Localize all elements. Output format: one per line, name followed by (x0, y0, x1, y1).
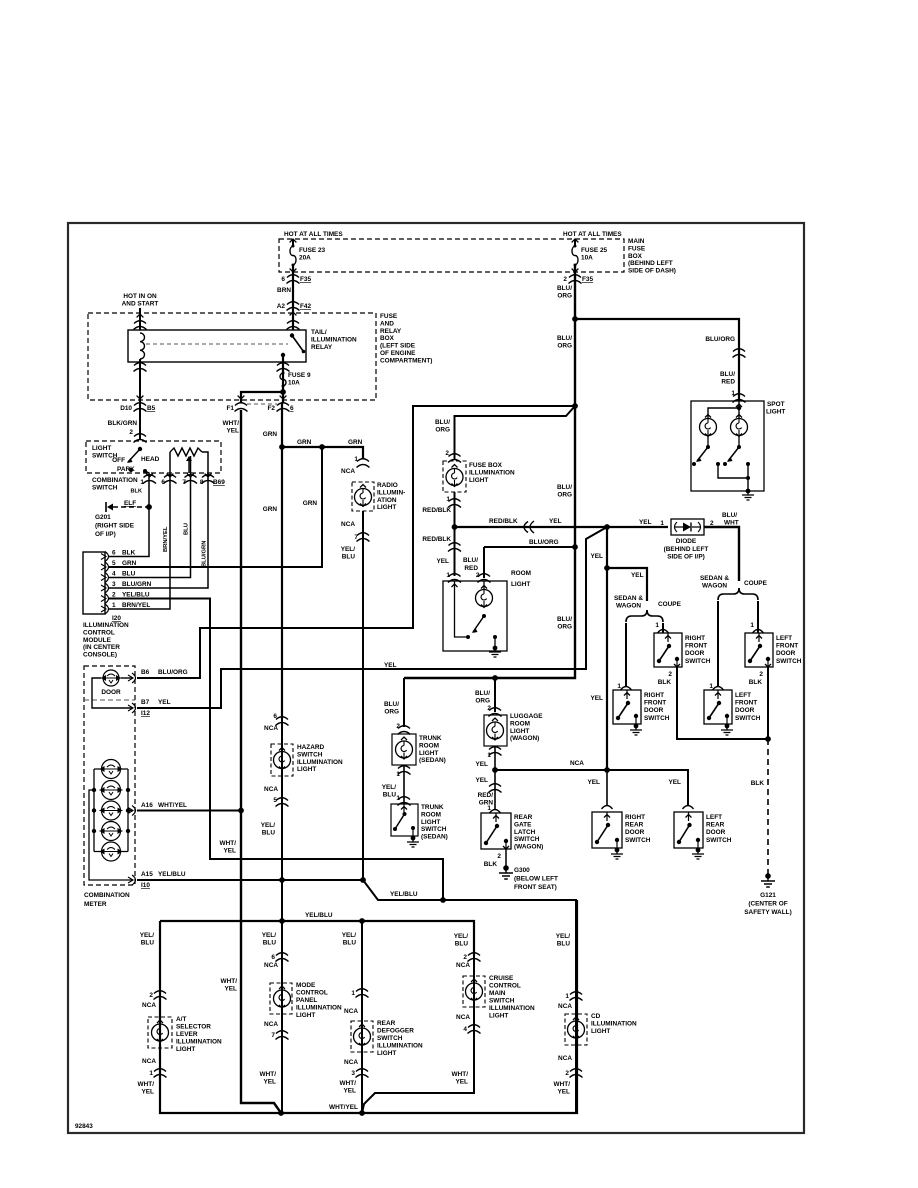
svg-text:LATCH: LATCH (514, 829, 536, 836)
svg-text:DOOR: DOOR (735, 707, 755, 714)
svg-text:BLU/ORG: BLU/ORG (158, 669, 188, 676)
module pin 1 BRN/YEL (105, 604, 109, 614)
svg-text:RIGHT: RIGHT (644, 692, 664, 699)
svg-text:ILLUMIN-: ILLUMIN- (377, 489, 405, 496)
svg-text:10A: 10A (288, 380, 300, 387)
svg-text:F35: F35 (582, 276, 594, 283)
svg-text:2: 2 (463, 954, 467, 961)
label fuse and relay box (380, 313, 432, 364)
module pin 3 BLU/GRN (105, 583, 109, 593)
luggage room light (wagon) box (484, 715, 507, 746)
svg-text:1: 1 (354, 456, 358, 463)
label main fuse box (628, 238, 676, 275)
label rear gate latch switch (514, 814, 543, 851)
connector pin B6 (128, 673, 136, 683)
svg-text:2: 2 (149, 992, 153, 999)
label left rear door switch (706, 814, 732, 844)
svg-text:YEL/BLU: YEL/BLU (305, 912, 333, 919)
wire fuse25 top arrow (574, 240, 576, 245)
svg-text:YEL: YEL (631, 572, 644, 579)
wire module pin5 GRN to GRN junction (108, 447, 322, 567)
wire BLK rear gate latch to G300 (505, 849, 507, 866)
svg-text:(IN CENTER: (IN CENTER (83, 644, 120, 651)
wire relay output to fuse 9 (282, 355, 284, 403)
connector pin A16 (128, 806, 136, 816)
label light switch (92, 445, 118, 460)
svg-text:LIGHT: LIGHT (296, 1012, 315, 1019)
label fuse box illumination light (469, 462, 515, 484)
svg-text:RED: RED (464, 565, 478, 572)
svg-text:LEFT: LEFT (776, 635, 792, 642)
svg-text:CONSOLE): CONSOLE) (83, 652, 117, 659)
svg-text:(SEDAN): (SEDAN) (421, 834, 448, 841)
wire BLU/ORG room light to main (484, 546, 576, 548)
svg-text:YEL: YEL (639, 519, 652, 526)
connector CD illumination light bottom (570, 1069, 583, 1078)
svg-text:YEL: YEL (158, 699, 171, 706)
svg-text:SWITCH: SWITCH (644, 715, 670, 722)
fuse F9 10A (282, 372, 285, 375)
mode control panel illumination light (dashed box + bulb) (270, 983, 292, 1014)
wire to left front door switch (coupe) (757, 601, 759, 633)
label WHT/YEL mode control panel illumination light (260, 1071, 277, 1086)
svg-text:6: 6 (281, 276, 285, 283)
svg-text:YEL/: YEL/ (382, 784, 397, 791)
combination meter bulb 5 (102, 842, 121, 861)
label YEL/BLU rear defogger switch illumination light (342, 932, 357, 947)
svg-text:ELF: ELF (124, 500, 136, 507)
svg-text:RED/BLK: RED/BLK (422, 507, 451, 514)
label CD illumination light (591, 1013, 637, 1035)
svg-text:1: 1 (396, 771, 400, 778)
room light switch (455, 581, 467, 637)
svg-text:HOT AT ALL TIMES: HOT AT ALL TIMES (284, 231, 343, 238)
junction BLK ground net (765, 736, 771, 742)
svg-text:(WAGON): (WAGON) (510, 735, 539, 742)
connector RED/BLK-YEL (524, 521, 534, 533)
svg-text:MODE: MODE (296, 982, 316, 989)
label BLU/ORG fusebox light (435, 419, 450, 434)
connector F1 (235, 403, 248, 412)
svg-text:I12: I12 (141, 710, 150, 717)
module pin 5 GRN (105, 562, 109, 572)
svg-text:3: 3 (351, 1070, 355, 1077)
label sedan & wagon right (700, 575, 729, 590)
brace split right (718, 588, 739, 600)
svg-text:NCA: NCA (344, 1008, 358, 1015)
svg-text:BOX: BOX (380, 335, 395, 342)
svg-text:G121: G121 (760, 892, 776, 899)
label YEL/BLU A/T selector lever illumination light (140, 932, 155, 947)
combination meter bulb 3 (102, 801, 121, 820)
label WHT/YEL cruise control main switch illumination light (452, 1071, 469, 1086)
combination meter bulb 2 (102, 781, 121, 800)
svg-text:BRN: BRN (277, 287, 291, 294)
svg-text:HAZARD: HAZARD (297, 744, 325, 751)
svg-text:BLU: BLU (455, 941, 469, 948)
svg-text:SWITCH: SWITCH (92, 485, 118, 492)
svg-text:10A: 10A (581, 255, 593, 262)
module pin 6 BLK (105, 552, 109, 562)
svg-text:AND START: AND START (122, 301, 159, 308)
junction ELF on BLK wire (146, 504, 152, 510)
light switch (dashed box) (86, 441, 221, 473)
label left front door switch sedan (735, 692, 761, 722)
junction YEL/BLU hazard (279, 877, 285, 883)
combination meter bulb 4 (102, 822, 121, 841)
label YEL/BLU radio (341, 546, 356, 561)
left rear door switch (674, 812, 703, 848)
svg-text:BLU/ORG: BLU/ORG (705, 336, 735, 343)
label G121 (744, 892, 791, 916)
svg-text:WAGON: WAGON (702, 583, 727, 590)
connector left rear door switch pin1 (683, 806, 694, 810)
svg-text:YEL/BLU: YEL/BLU (158, 871, 186, 878)
svg-text:YEL/: YEL/ (341, 546, 356, 553)
svg-text:CONTROL: CONTROL (489, 983, 521, 990)
svg-text:SWITCH: SWITCH (297, 751, 323, 758)
svg-text:ILLUMINATION: ILLUMINATION (469, 469, 515, 476)
svg-text:6: 6 (112, 550, 116, 557)
wire WHT/YEL from F1 to bottom bus (241, 410, 281, 1113)
wire YEL to diode (607, 526, 668, 528)
junction NCA rear net left (492, 767, 498, 773)
svg-text:DOOR: DOOR (625, 829, 645, 836)
connector rear defogger switch illumination light top (356, 989, 369, 998)
mode control panel illumination light column wire (281, 921, 283, 1113)
svg-text:4: 4 (112, 571, 116, 578)
svg-text:YEL: YEL (590, 695, 603, 702)
svg-text:RIGHT: RIGHT (685, 635, 705, 642)
svg-text:(SEDAN): (SEDAN) (419, 757, 446, 764)
combination switch pin 7 (187, 474, 194, 477)
svg-text:COMBINATION: COMBINATION (84, 892, 130, 899)
svg-text:HEAD: HEAD (141, 456, 160, 463)
svg-text:FUSE 25: FUSE 25 (581, 247, 608, 254)
label radio illumination light (377, 482, 405, 511)
label BLU/ORG main 2 (557, 335, 572, 350)
svg-text:COMBINATION: COMBINATION (92, 477, 138, 484)
svg-text:PANEL: PANEL (296, 997, 317, 1004)
connector at relay box top right (287, 321, 300, 330)
svg-text:A16: A16 (141, 802, 153, 809)
label combination meter (84, 892, 130, 908)
wire relay coil to D10 (139, 359, 141, 440)
trunk room light switch (sedan) (391, 804, 418, 836)
junction BLU/ORG to spot light (572, 316, 578, 322)
svg-text:REAR: REAR (625, 822, 644, 829)
svg-text:B6: B6 (141, 669, 150, 676)
connector room light pin 1 (448, 574, 461, 583)
connector luggage room light pin 1 (489, 747, 502, 756)
room light bulb (476, 590, 493, 607)
rear defogger switch illumination light column wire (361, 921, 363, 1113)
relay switch (290, 333, 294, 337)
wire luggage light output YEL (494, 746, 496, 770)
svg-text:TRUNK: TRUNK (421, 804, 444, 811)
svg-text:YEL/: YEL/ (556, 933, 571, 940)
wire to right front door switch (sedan) (625, 623, 627, 686)
svg-text:ORG: ORG (557, 293, 572, 300)
svg-text:NCA: NCA (570, 760, 584, 767)
label rear defogger switch illumination light (377, 1020, 423, 1057)
connector room light harness (448, 543, 461, 552)
label G201 (95, 514, 135, 538)
label hazard switch illumination light (297, 744, 343, 773)
label G300 (514, 867, 558, 891)
svg-text:YEL/: YEL/ (261, 822, 276, 829)
spot light ground wiring (718, 464, 748, 491)
label BLU/RED (720, 371, 735, 386)
svg-text:BLU: BLU (383, 792, 397, 799)
connector F35 pin 2 (569, 275, 582, 284)
svg-text:CONTROL: CONTROL (296, 990, 328, 997)
wire hot in on feed to relay coil (139, 308, 141, 330)
svg-text:NCA: NCA (264, 725, 278, 732)
wire GRN from F2 down to hazard switch (281, 403, 283, 719)
label YEL/BLU mode control panel illumination light (262, 932, 277, 947)
svg-text:YEL: YEL (226, 428, 239, 435)
door section divider (84, 699, 135, 701)
wire meter to pin A16 (128, 810, 133, 812)
spot light bulb left (700, 419, 717, 436)
connector trunk room light pin 1 (398, 766, 411, 775)
wire BRN from fuse 23 to relay (292, 266, 294, 330)
wire to left front door switch (sedan) (717, 601, 719, 686)
label WHT/YEL CD illumination light (554, 1081, 571, 1096)
svg-text:YEL: YEL (455, 1079, 468, 1086)
junction YEL/BLU module net (440, 897, 446, 903)
luggage room light bulb (487, 722, 504, 739)
wire NCA rear net (495, 770, 688, 806)
svg-text:BRN/YEL: BRN/YEL (122, 602, 150, 609)
svg-text:(LEFT SIDE: (LEFT SIDE (380, 343, 416, 350)
connector CD illumination light top (570, 992, 583, 1001)
svg-text:ORG: ORG (475, 698, 490, 705)
combination meter (dashed box) (84, 666, 135, 885)
svg-text:COMPARTMENT): COMPARTMENT) (380, 357, 432, 364)
connector spot light pin 1 (733, 394, 746, 403)
svg-text:A/T: A/T (176, 1016, 186, 1023)
connector radio light pin 1 (357, 459, 369, 462)
cruise control main switch illumination light column wire (473, 921, 475, 1093)
svg-text:YEL: YEL (343, 1088, 356, 1095)
svg-text:BLU: BLU (342, 554, 356, 561)
svg-text:(BEHIND LEFT: (BEHIND LEFT (628, 260, 673, 267)
svg-text:NCA: NCA (264, 962, 278, 969)
svg-text:A2: A2 (277, 303, 286, 310)
svg-text:ORG: ORG (557, 343, 572, 350)
svg-text:BLU/: BLU/ (384, 701, 399, 708)
junction BLU/ORG luggage light (492, 675, 498, 681)
svg-text:1: 1 (351, 990, 355, 997)
wire branch to F1 (241, 392, 283, 403)
svg-text:2: 2 (565, 1070, 569, 1077)
svg-text:RED/: RED/ (478, 792, 494, 799)
CD illumination light (dashed box + bulb) (565, 1014, 587, 1045)
connector right front door switch coupe pin1 (658, 630, 669, 634)
junction YEL at diode (604, 524, 610, 530)
svg-text:WHT/: WHT/ (223, 420, 240, 427)
svg-text:FRONT: FRONT (644, 700, 666, 707)
svg-text:NCA: NCA (456, 1014, 470, 1021)
radio illumination light (dashed box + bulb) (352, 482, 374, 511)
svg-text:OFF: OFF (112, 457, 125, 464)
relay internal dashed link (146, 343, 288, 345)
svg-text:LIGHT: LIGHT (421, 819, 440, 826)
svg-text:ILLUMINATION: ILLUMINATION (591, 1021, 637, 1028)
svg-text:LIGHT: LIGHT (377, 1050, 396, 1057)
connector trunk light switch pin 1 (398, 797, 411, 806)
svg-text:ILLUMINATION: ILLUMINATION (176, 1039, 222, 1046)
svg-text:MAIN: MAIN (628, 238, 645, 245)
svg-text:GRN: GRN (122, 560, 137, 567)
svg-text:1: 1 (112, 602, 116, 609)
wire YEL to rear gate latch switch (494, 770, 496, 810)
wire module pin2 YEL/BLU to bottom net (108, 599, 443, 901)
svg-text:20A: 20A (299, 255, 311, 262)
connector mode control panel illumination light top (276, 953, 289, 962)
wire BLU/RED room light pin2 (483, 547, 485, 578)
svg-text:WAGON: WAGON (616, 603, 641, 610)
dashed connector strip between F1 and F2 (247, 403, 277, 405)
svg-text:FRONT: FRONT (776, 643, 798, 650)
wire YEL from diode junction to module B7 (137, 527, 607, 708)
svg-text:(WAGON): (WAGON) (514, 844, 543, 851)
svg-text:YEL: YEL (587, 779, 600, 786)
wire BLU/ORG to fuse box illumination light (455, 406, 576, 459)
main fuse box (dashed) (279, 239, 624, 272)
svg-text:I20: I20 (112, 615, 121, 622)
label WHT/YEL A/T selector lever illumination light (138, 1081, 155, 1096)
svg-text:ORG: ORG (557, 492, 572, 499)
svg-text:7: 7 (271, 1032, 275, 1039)
svg-text:A15: A15 (141, 871, 153, 878)
svg-text:LIGHT: LIGHT (489, 1013, 508, 1020)
svg-text:1: 1 (140, 479, 144, 486)
svg-text:YEL: YEL (590, 553, 603, 560)
svg-text:ORG: ORG (557, 624, 572, 631)
svg-text:DEFOGGER: DEFOGGER (377, 1028, 414, 1035)
label BLU/RED room light (463, 557, 478, 572)
svg-text:F42: F42 (300, 303, 312, 310)
label mode control panel illumination light (296, 982, 342, 1019)
connector left front door switch coupe pin1 (753, 630, 764, 634)
svg-text:YEL/: YEL/ (454, 933, 469, 940)
hazard column wire (281, 719, 283, 921)
ground room light (494, 637, 496, 648)
svg-text:YEL: YEL (557, 1089, 570, 1096)
connector luggage room light pin 2 (489, 708, 502, 717)
svg-text:RIGHT: RIGHT (625, 814, 645, 821)
svg-text:YEL: YEL (668, 779, 681, 786)
connector room light pin 2 (478, 574, 491, 583)
svg-text:FUSE: FUSE (380, 313, 398, 320)
svg-text:SEDAN &: SEDAN & (614, 595, 643, 602)
spot light bulb right (731, 419, 748, 436)
svg-text:NCA: NCA (264, 786, 278, 793)
wire GRN horizontal to radio light (282, 447, 363, 459)
svg-text:YEL: YEL (263, 1079, 276, 1086)
connector right front door switch sedan pin1 (621, 687, 632, 691)
svg-text:WHT/: WHT/ (260, 1071, 277, 1078)
svg-text:YEL/: YEL/ (140, 932, 155, 939)
svg-text:YEL/BLU: YEL/BLU (390, 891, 418, 898)
label BLU/ORG main 4 (557, 616, 572, 631)
svg-text:GRN: GRN (297, 439, 312, 446)
svg-text:BLU/: BLU/ (475, 690, 490, 697)
svg-text:OF ENGINE: OF ENGINE (380, 350, 416, 357)
svg-text:REAR: REAR (514, 814, 533, 821)
junction bus mode bottom (278, 1110, 284, 1116)
connector fuse box light pin 1 (448, 499, 461, 508)
svg-text:1: 1 (446, 496, 450, 503)
svg-text:HOT IN ON: HOT IN ON (123, 293, 157, 300)
svg-text:I10: I10 (141, 882, 150, 889)
label tail/illumination relay (311, 329, 357, 351)
junction YEL to right front door switches (604, 565, 610, 571)
junction GRN (279, 444, 285, 450)
connector hazard pin 5 (276, 798, 289, 807)
svg-text:ILLUMINATION: ILLUMINATION (83, 622, 129, 629)
svg-text:CRUISE: CRUISE (489, 975, 514, 982)
svg-text:(BELOW LEFT: (BELOW LEFT (514, 875, 558, 882)
svg-text:SWITCH: SWITCH (625, 837, 651, 844)
label BLU/ORG main 3 (557, 484, 572, 499)
connector pin A15 (128, 875, 136, 885)
svg-text:ILLUMINATION: ILLUMINATION (311, 336, 357, 343)
svg-text:SWITCH: SWITCH (706, 837, 732, 844)
svg-text:92843: 92843 (75, 1123, 93, 1130)
svg-text:SWITCH: SWITCH (489, 998, 515, 1005)
svg-text:DIODE: DIODE (676, 538, 697, 545)
label BLU/WHT (722, 512, 739, 527)
svg-text:PARK: PARK (117, 466, 135, 473)
connector left front door switch sedan pin1 (713, 687, 724, 691)
svg-text:REAR: REAR (377, 1020, 396, 1027)
svg-text:GRN: GRN (479, 800, 494, 807)
svg-text:YEL: YEL (436, 558, 449, 565)
rear defogger switch illumination light (dashed box + bulb) (351, 1021, 373, 1052)
svg-text:WHT/: WHT/ (221, 978, 238, 985)
svg-text:BLK: BLK (658, 679, 672, 686)
label BLU/ORG (557, 285, 572, 300)
svg-text:WHT/YEL: WHT/YEL (329, 1104, 358, 1111)
svg-text:ROOM: ROOM (511, 570, 531, 577)
svg-text:MODULE: MODULE (83, 637, 112, 644)
svg-text:ILLUMINATION: ILLUMINATION (297, 759, 343, 766)
meter bulb rail left (94, 769, 101, 852)
svg-text:BLK: BLK (484, 861, 498, 868)
wire meter outer rail to pin A15 (89, 790, 133, 880)
wire A16 WHT/YEL to main line (137, 810, 241, 812)
svg-text:FRONT SEAT): FRONT SEAT) (514, 884, 557, 891)
trunk room light (sedan) box (392, 734, 416, 765)
svg-text:SAFETY WALL): SAFETY WALL) (744, 909, 791, 916)
spot light box (691, 401, 764, 491)
wire cruise return (362, 1028, 474, 1113)
ground spot light (746, 489, 751, 494)
svg-text:GRN: GRN (263, 431, 278, 438)
junction RED/BLK (452, 524, 458, 530)
svg-text:RED/BLK: RED/BLK (422, 536, 451, 543)
spot light switch right (738, 436, 740, 447)
label diode (664, 538, 709, 561)
right front door switch (coupe) (654, 633, 682, 667)
svg-text:1: 1 (660, 520, 664, 527)
svg-text:YEL: YEL (549, 518, 562, 525)
svg-text:8: 8 (200, 479, 204, 486)
